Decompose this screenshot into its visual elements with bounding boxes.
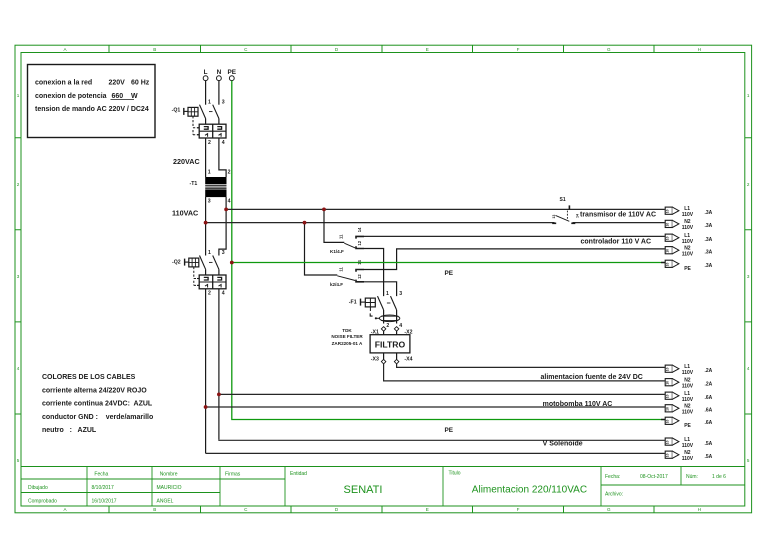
wire X3 to alimentacion N2 bbox=[384, 364, 665, 381]
svg-text:110V: 110V bbox=[682, 397, 694, 403]
svg-text:1: 1 bbox=[208, 169, 211, 175]
svg-text:controlador 110 V AC: controlador 110 V AC bbox=[581, 238, 652, 245]
svg-text:110V: 110V bbox=[682, 239, 694, 245]
svg-text:alimentacion fuente de 24V DC: alimentacion fuente de 24V DC bbox=[541, 374, 643, 381]
svg-text:.2A: .2A bbox=[705, 368, 713, 374]
svg-text:5: 5 bbox=[747, 458, 750, 463]
svg-text:10: 10 bbox=[666, 263, 670, 267]
svg-text:PE: PE bbox=[445, 270, 454, 277]
svg-text:.3A: .3A bbox=[705, 237, 713, 243]
svg-text:Titulo: Titulo bbox=[449, 471, 461, 477]
svg-text:660: 660 bbox=[112, 93, 124, 100]
svg-text:Comprobado: Comprobado bbox=[28, 498, 57, 504]
svg-text:10: 10 bbox=[666, 223, 670, 227]
svg-text:.3A: .3A bbox=[705, 263, 713, 269]
wire X1 to filter bbox=[383, 331, 385, 335]
transformer T1 bbox=[190, 169, 231, 204]
svg-text:SENATI: SENATI bbox=[344, 484, 383, 496]
connector V solenoide N2 bbox=[665, 450, 712, 462]
svg-text:4: 4 bbox=[399, 323, 402, 329]
svg-text:10: 10 bbox=[666, 381, 670, 385]
node junction motobomba N2 bbox=[204, 405, 208, 409]
wire Q2 pin2 down bbox=[205, 289, 207, 454]
svg-text:110V: 110V bbox=[682, 410, 694, 416]
svg-text:4: 4 bbox=[747, 366, 750, 371]
wire Q1 to T1 left bbox=[205, 138, 207, 177]
wire V solenoide N2 bbox=[206, 452, 665, 454]
svg-text:COLORES DE LOS CABLES: COLORES DE LOS CABLES bbox=[42, 374, 136, 381]
node junction PE branch bbox=[230, 261, 234, 265]
svg-text:110V: 110V bbox=[682, 252, 694, 258]
svg-text:4: 4 bbox=[222, 291, 225, 297]
svg-text:60 Hz: 60 Hz bbox=[131, 80, 150, 87]
connector motobomba L1 bbox=[665, 391, 712, 403]
svg-text:11: 11 bbox=[339, 267, 344, 272]
svg-text:1: 1 bbox=[208, 250, 211, 256]
wire T1 pin4 down with jog to Q2 pin3 bbox=[219, 197, 226, 256]
svg-text:V Solenoide: V Solenoide bbox=[543, 440, 583, 447]
svg-text:.3A: .3A bbox=[705, 223, 713, 229]
connector alimentacion N2 bbox=[665, 378, 712, 390]
breaker Q1 bbox=[172, 99, 226, 146]
svg-text:tension de mando AC 220V / DC2: tension de mando AC 220V / DC24 bbox=[35, 106, 149, 113]
svg-text:Fecha:: Fecha: bbox=[605, 474, 620, 480]
node junction on line2 at transformer bbox=[204, 221, 208, 225]
svg-text:10: 10 bbox=[666, 440, 670, 444]
svg-text:4: 4 bbox=[228, 198, 231, 204]
svg-text:3: 3 bbox=[17, 274, 20, 279]
wire N from terminal to Q1 bbox=[218, 81, 220, 105]
wire filter to X4 bbox=[396, 353, 398, 360]
contact k2/4.F bbox=[330, 259, 364, 287]
svg-text:G: G bbox=[607, 507, 611, 512]
svg-text:Nombre: Nombre bbox=[160, 471, 178, 477]
svg-text:Dibujado: Dibujado bbox=[28, 485, 48, 491]
svg-text:10: 10 bbox=[666, 249, 670, 253]
node junction k2 drop bbox=[303, 221, 307, 225]
svg-text:PE: PE bbox=[684, 266, 691, 272]
svg-text:.3A: .3A bbox=[705, 250, 713, 256]
terminal L bbox=[203, 69, 208, 81]
svg-text:neutro : AZUL: neutro : AZUL bbox=[42, 427, 97, 434]
svg-text:-X4: -X4 bbox=[404, 356, 412, 362]
svg-text:10: 10 bbox=[666, 209, 670, 213]
wire drop to K1 bbox=[324, 209, 344, 242]
connector transmisor L1 bbox=[665, 206, 712, 218]
svg-text:-X3: -X3 bbox=[371, 356, 379, 362]
svg-text:2: 2 bbox=[228, 169, 231, 175]
svg-text:Fecha: Fecha bbox=[94, 471, 108, 477]
svg-text:4: 4 bbox=[222, 140, 225, 146]
svg-text:B: B bbox=[153, 47, 156, 52]
svg-text:E: E bbox=[426, 507, 429, 512]
svg-text:10: 10 bbox=[666, 407, 670, 411]
wire L from terminal to Q1 bbox=[205, 81, 207, 105]
svg-text:PE: PE bbox=[445, 427, 454, 434]
svg-text:H: H bbox=[698, 507, 701, 512]
svg-text:N: N bbox=[217, 69, 222, 76]
svg-text:14: 14 bbox=[576, 214, 580, 218]
svg-text:.6A: .6A bbox=[705, 420, 713, 426]
wire k2-12 right then down to F1 pin3 bbox=[364, 282, 397, 296]
wire PE branch 1 green bbox=[232, 262, 665, 264]
svg-text:13: 13 bbox=[552, 215, 556, 219]
svg-text:MAURICIO: MAURICIO bbox=[157, 485, 182, 491]
label COLORES DE LOS CABLES bbox=[42, 374, 153, 434]
note box connection data bbox=[28, 65, 156, 138]
svg-text:-T1: -T1 bbox=[190, 181, 198, 187]
terminal X1 bbox=[371, 327, 386, 336]
svg-text:H: H bbox=[698, 47, 701, 52]
svg-text:8/10/2017: 8/10/2017 bbox=[92, 485, 114, 491]
svg-text:110V: 110V bbox=[682, 443, 694, 449]
node junction motobomba L1 bbox=[217, 393, 221, 397]
svg-text:motobomba 110V AC: motobomba 110V AC bbox=[543, 401, 613, 408]
svg-text:11: 11 bbox=[339, 234, 344, 239]
svg-text:E: E bbox=[426, 47, 429, 52]
breaker Q2 bbox=[172, 250, 226, 297]
terminal PE bbox=[228, 69, 237, 81]
switch S1 bbox=[552, 197, 580, 223]
svg-text:PE: PE bbox=[228, 69, 237, 76]
wire X4 to alimentacion L1 bbox=[397, 364, 665, 368]
terminal N bbox=[217, 69, 222, 81]
svg-text:3: 3 bbox=[222, 99, 225, 105]
svg-text:G: G bbox=[607, 47, 611, 52]
svg-text:10: 10 bbox=[666, 367, 670, 371]
wire motobomba N2 bbox=[206, 406, 665, 408]
svg-text:4: 4 bbox=[17, 366, 20, 371]
svg-text:10: 10 bbox=[666, 236, 670, 240]
wire filter to X3 bbox=[383, 353, 385, 360]
svg-text:1: 1 bbox=[747, 93, 750, 98]
svg-text:.5A: .5A bbox=[705, 441, 713, 447]
svg-text:12: 12 bbox=[357, 240, 362, 245]
svg-text:TDK: TDK bbox=[342, 328, 352, 333]
svg-text:110VAC: 110VAC bbox=[172, 208, 198, 217]
svg-text:1: 1 bbox=[17, 93, 20, 98]
svg-text:B: B bbox=[153, 507, 156, 512]
svg-text:5: 5 bbox=[17, 458, 20, 463]
wire Q1 to T1 right with jog bbox=[219, 138, 226, 177]
wire line1 transmisor L bbox=[226, 208, 665, 210]
svg-text:3: 3 bbox=[222, 250, 225, 256]
connector controlador N2 bbox=[665, 246, 712, 258]
svg-text:220VAC: 220VAC bbox=[173, 157, 200, 166]
wire K1-14 to controlador L1 bbox=[364, 235, 665, 237]
svg-text:110V: 110V bbox=[682, 456, 694, 462]
connector alimentacion L1 bbox=[665, 364, 712, 376]
svg-text:conductor GND : verde/amari: conductor GND : verde/amarillo bbox=[42, 414, 153, 421]
svg-text:F: F bbox=[517, 47, 520, 52]
title block bbox=[21, 467, 745, 507]
wire V solenoide L1 bbox=[219, 439, 665, 442]
svg-text:14: 14 bbox=[357, 227, 362, 232]
svg-text:-F1: -F1 bbox=[349, 299, 357, 305]
svg-text:S1: S1 bbox=[560, 197, 566, 203]
wire drop to k2 bbox=[305, 223, 338, 275]
svg-text:Entidad: Entidad bbox=[290, 471, 307, 477]
connector V solenoide L1 bbox=[665, 437, 712, 449]
svg-text:2: 2 bbox=[386, 323, 389, 329]
svg-text:conexion a la red: conexion a la red bbox=[35, 80, 92, 87]
svg-text:110V: 110V bbox=[682, 384, 694, 390]
connector transmisor N2 bbox=[665, 219, 712, 231]
svg-text:1: 1 bbox=[386, 291, 389, 297]
svg-text:.6A: .6A bbox=[705, 408, 713, 414]
terminal X2 bbox=[394, 327, 412, 336]
svg-text:-Q2: -Q2 bbox=[172, 260, 181, 266]
svg-text:conexion de potencia: conexion de potencia bbox=[35, 93, 107, 100]
wire PE green vertical bbox=[232, 81, 665, 420]
svg-text:16/10/2017: 16/10/2017 bbox=[92, 498, 117, 504]
svg-text:Archivo:: Archivo: bbox=[605, 492, 623, 498]
svg-text:1 de 6: 1 de 6 bbox=[712, 474, 726, 480]
svg-text:.3A: .3A bbox=[705, 210, 713, 216]
wire line2 transmisor N bbox=[206, 222, 555, 224]
breaker F1 bbox=[349, 291, 402, 329]
wire K1-12 right then down to F1 pin1 bbox=[364, 249, 384, 297]
svg-text:-Q1: -Q1 bbox=[172, 108, 181, 114]
wire T1 pin3 down to Q2 pin1 bbox=[205, 197, 207, 256]
svg-text:L: L bbox=[204, 69, 208, 76]
svg-text:PE: PE bbox=[684, 423, 691, 429]
svg-text:110V: 110V bbox=[682, 370, 694, 376]
svg-text:.6A: .6A bbox=[705, 395, 713, 401]
svg-text:3: 3 bbox=[208, 198, 211, 204]
svg-text:220V: 220V bbox=[109, 80, 126, 87]
wire X2 to filter bbox=[396, 331, 398, 335]
svg-text:1: 1 bbox=[208, 99, 211, 105]
svg-text:NOISE FILTER: NOISE FILTER bbox=[331, 334, 363, 339]
wire k2-14 right then up to controlador N2 line bbox=[364, 249, 665, 270]
svg-text:3: 3 bbox=[747, 274, 750, 279]
svg-text:.2A: .2A bbox=[705, 382, 713, 388]
svg-text:2: 2 bbox=[747, 182, 750, 187]
wire Q2 pin4 down bbox=[218, 289, 220, 440]
label TDK NOISE FILTER bbox=[331, 328, 363, 346]
contact K1/4.F bbox=[330, 227, 364, 254]
svg-text:3: 3 bbox=[399, 291, 402, 297]
svg-text:12: 12 bbox=[357, 274, 362, 279]
node junction on line1 at transformer bbox=[224, 208, 228, 212]
node junction K1 drop bbox=[322, 208, 326, 212]
svg-text:FILTRO: FILTRO bbox=[375, 340, 406, 350]
svg-text:W: W bbox=[131, 93, 138, 100]
svg-text:K1/4.F: K1/4.F bbox=[330, 249, 344, 254]
svg-text:Alimentacion 220/110VAC: Alimentacion 220/110VAC bbox=[472, 485, 587, 496]
svg-text:10: 10 bbox=[666, 394, 670, 398]
wire motobomba L1 bbox=[219, 393, 665, 395]
filter box FILTRO bbox=[370, 335, 410, 353]
svg-text:ANGEL: ANGEL bbox=[157, 498, 174, 504]
svg-text:10: 10 bbox=[666, 420, 670, 424]
svg-text:.5A: .5A bbox=[705, 454, 713, 460]
svg-text:ZAR2205-01 A: ZAR2205-01 A bbox=[332, 341, 363, 346]
svg-text:110V: 110V bbox=[682, 212, 694, 218]
connector motobomba N2 bbox=[665, 404, 712, 416]
connector PE group2 bbox=[661, 417, 713, 429]
terminal X4 bbox=[394, 356, 412, 363]
svg-text:F: F bbox=[517, 507, 520, 512]
svg-text:2: 2 bbox=[17, 182, 20, 187]
svg-text:Firmas: Firmas bbox=[225, 471, 241, 477]
svg-text:k2/4.F: k2/4.F bbox=[330, 282, 343, 287]
svg-text:2: 2 bbox=[208, 291, 211, 297]
svg-text:corriente alterna 24/220V ROJO: corriente alterna 24/220V ROJO bbox=[42, 387, 147, 394]
svg-text:110V: 110V bbox=[682, 225, 694, 231]
terminal X3 bbox=[371, 356, 386, 363]
svg-text:corriente continua 24VDC: AZU: corriente continua 24VDC: AZUL bbox=[42, 401, 153, 408]
svg-text:transmisor de 110V AC: transmisor de 110V AC bbox=[580, 211, 656, 218]
svg-text:2: 2 bbox=[208, 140, 211, 146]
svg-text:Núm:: Núm: bbox=[686, 474, 698, 480]
connector PE group1 bbox=[661, 260, 713, 272]
svg-text:08-Oct-2017: 08-Oct-2017 bbox=[640, 474, 668, 480]
connector controlador L1 bbox=[665, 233, 712, 245]
svg-text:10: 10 bbox=[666, 453, 670, 457]
